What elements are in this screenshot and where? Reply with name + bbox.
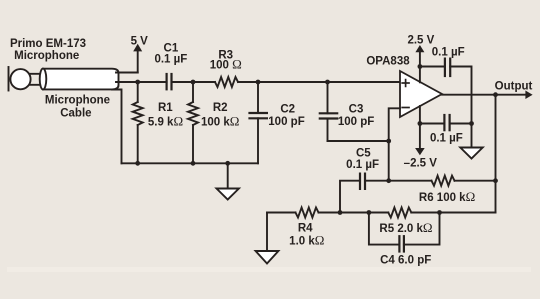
wire R4 row: [267, 212, 296, 214]
ground by bypass caps: [460, 124, 482, 159]
svg-text:Output: Output: [495, 80, 533, 92]
wire R5 to feedback vertical: [411, 212, 495, 214]
node C5/R6: [386, 178, 391, 183]
node inverting junction: [386, 139, 391, 144]
svg-text:Cable: Cable: [60, 108, 91, 120]
svg-text:0.1 µF: 0.1 µF: [346, 159, 379, 171]
svg-text:100 kΩ: 100 kΩ: [201, 113, 239, 128]
wire ground rail: [122, 162, 259, 164]
wire after R3 to op-amp + input: [238, 81, 400, 83]
resistor R4: [296, 208, 319, 218]
svg-text:OPA838: OPA838: [366, 55, 410, 67]
wire output feedback vertical: [495, 95, 497, 213]
svg-text:–2.5 V: –2.5 V: [404, 158, 438, 170]
capacitor C4 parallel loop: [369, 213, 440, 252]
label R3 value: [210, 49, 242, 71]
5V supply rail: [133, 44, 142, 73]
label C1 value: [154, 42, 187, 65]
wire after C1: [172, 81, 216, 83]
svg-text:R2: R2: [213, 102, 228, 114]
svg-text:R5 2.0 kΩ: R5 2.0 kΩ: [379, 220, 432, 235]
node R5 right: [437, 210, 442, 215]
node C5 left bottom: [338, 210, 343, 215]
svg-text:1.0 kΩ: 1.0 kΩ: [289, 233, 324, 248]
microphone element (Primo EM-173): [9, 67, 46, 91]
2.5V supply rail: [415, 45, 424, 82]
ground under R4: [256, 213, 279, 264]
-2.5V supply rail: [415, 106, 425, 155]
wire main signal line: [116, 81, 167, 83]
svg-text:100 pF: 100 pF: [338, 116, 374, 128]
svg-text:Primo EM-173: Primo EM-173: [10, 38, 86, 50]
capacitor bypass 0.1uF bottom: [420, 115, 472, 130]
node C1/R2: [191, 80, 196, 85]
label Microphone Cable: [45, 94, 110, 119]
ground under R1/R2 rail: [217, 163, 239, 199]
capacitor C5: [340, 174, 389, 213]
label R2 value: [201, 102, 239, 128]
wire inverting input: [389, 108, 400, 180]
resistor R6: [389, 176, 496, 186]
label R1 value: [148, 102, 183, 128]
label C2 value: [268, 104, 304, 129]
svg-text:C2: C2: [280, 104, 295, 116]
faint rule at bottom: [7, 267, 531, 272]
svg-text:C5: C5: [356, 147, 371, 159]
node C2 top: [256, 80, 261, 85]
svg-text:100 Ω: 100 Ω: [210, 57, 242, 72]
capacitor C2: [250, 82, 267, 163]
svg-text:C4 6.0 pF: C4 6.0 pF: [380, 255, 431, 267]
svg-text:R4: R4: [298, 223, 313, 235]
node R5 left: [367, 210, 372, 215]
node 5V/main: [135, 80, 140, 85]
node bypass ground: [469, 121, 474, 126]
label Primo EM-173 Microphone: [10, 38, 86, 62]
node C3 top: [325, 80, 330, 85]
op-amp U1 OPA838: [400, 71, 442, 117]
label C3 value: [338, 104, 374, 129]
node -2.5V bypass: [418, 121, 423, 126]
capacitor C3: [320, 82, 337, 141]
capacitor C1: [167, 74, 172, 89]
microphone cable plug body: [40, 69, 119, 90]
resistor R1: [133, 82, 143, 163]
resistor R2: [188, 82, 198, 163]
capacitor bypass 0.1uF top: [420, 59, 472, 124]
node R6 right: [493, 178, 498, 183]
wire C3 bottom to inverting node: [328, 140, 389, 142]
node rail ground: [225, 161, 230, 166]
svg-text:0.1 µF: 0.1 µF: [154, 53, 187, 65]
svg-text:100 pF: 100 pF: [268, 116, 304, 128]
svg-text:0.1 µF: 0.1 µF: [432, 46, 465, 58]
wire plug tip to 5V rail: [116, 72, 138, 74]
node rail R2: [191, 161, 196, 166]
svg-text:2.5 V: 2.5 V: [407, 34, 434, 46]
node output: [493, 92, 498, 97]
resistor R5: [388, 208, 411, 218]
label R4 value: [289, 223, 324, 248]
resistor R3: [215, 77, 238, 87]
wire R4 to R5: [319, 212, 389, 214]
node 2.5V bypass: [418, 64, 423, 69]
svg-text:Microphone: Microphone: [14, 50, 79, 62]
svg-text:5 V: 5 V: [131, 35, 149, 47]
label C5 value: [346, 147, 379, 171]
svg-text:0.1 µF: 0.1 µF: [430, 132, 463, 144]
svg-text:Microphone: Microphone: [45, 94, 110, 106]
svg-text:R1: R1: [158, 102, 173, 114]
wire plug sleeve down: [112, 90, 122, 164]
svg-text:5.9 kΩ: 5.9 kΩ: [148, 113, 183, 128]
svg-text:C3: C3: [349, 104, 364, 116]
wire output: [442, 91, 533, 100]
node rail R1: [135, 161, 140, 166]
svg-text:R6 100 kΩ: R6 100 kΩ: [419, 189, 475, 204]
